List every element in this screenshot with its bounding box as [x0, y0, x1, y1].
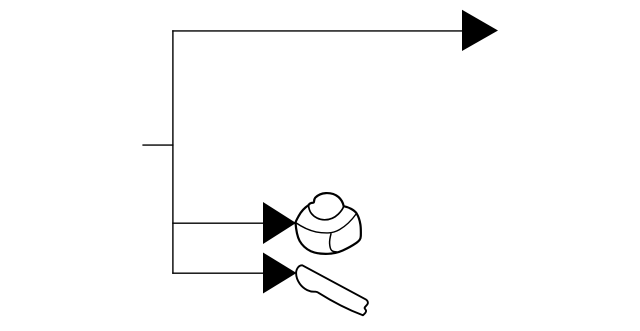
- part: molding strip with break end: [296, 265, 368, 315]
- arrow: bottom branch callout arrowhead: [263, 253, 297, 294]
- part: grommet front seam line: [330, 234, 337, 252]
- wire: bottom branch horizontal: [172, 272, 264, 274]
- part: grommet cap body outline: [296, 193, 361, 254]
- wire: left tick stub: [142, 144, 173, 146]
- wire: top branch horizontal: [172, 30, 463, 32]
- arrow: top branch callout arrowhead: [462, 10, 498, 51]
- part: grommet dome inner recess ellipse: [309, 205, 344, 220]
- wire: vertical trunk: [172, 30, 174, 273]
- wire: middle branch horizontal: [172, 222, 264, 224]
- part: grommet front rim arc: [296, 214, 357, 233]
- arrow: middle branch callout arrowhead: [263, 202, 296, 244]
